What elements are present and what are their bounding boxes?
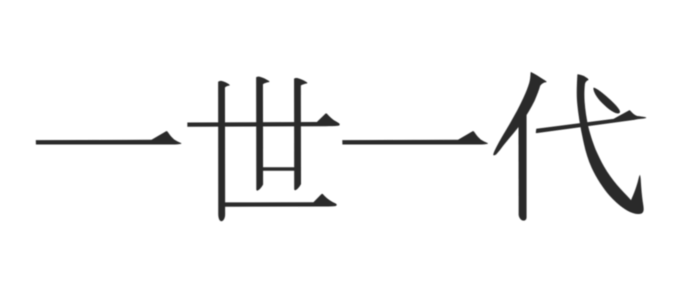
kanji 2 世 : bottom horizontal bar with uroko serif	[219, 194, 337, 207]
kanji 2 世 : middle vertical stroke	[256, 77, 269, 191]
kanji 2 世 : right vertical stroke	[294, 78, 307, 190]
kanji 4 代 : left falling diagonal stroke (no-hook) with head serif	[493, 72, 546, 155]
kanji 1 一 : horizontal bar with uroko serif	[36, 131, 182, 144]
kanji 4 代 : slanted horizontal bar of 弋 with uroko serif	[536, 110, 646, 133]
kanji 4 代 : left vertical stroke of person radical	[518, 109, 526, 221]
kanji 2 世 : long horizontal bar	[187, 113, 339, 126]
kanji 4 代 : small teardrop dot stroke at upper right	[593, 88, 620, 114]
kanji 2 世 : middle short horizontal bar	[257, 167, 301, 171]
kanji 2 世 : left vertical stroke (bends under into bottom bar, protrudes below)	[218, 81, 230, 221]
kanji 4 代 : long sweeping curve of 弋 with upward hook	[577, 74, 644, 214]
kanji 3 一 : horizontal bar with uroko serif	[342, 131, 488, 144]
